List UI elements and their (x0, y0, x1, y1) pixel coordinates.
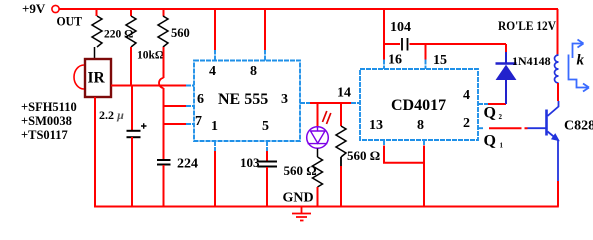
wire stub NE555 pin6 (teal) (186, 105, 194, 107)
wire stub rail to R 10k (130, 9, 132, 16)
wire NE555 pin8 stub teal (264, 50, 266, 61)
wire CD4017 pin2 stub teal (478, 127, 483, 129)
svg-text:104: 104 (390, 20, 411, 35)
wire pin4 to diode anode (488, 103, 506, 105)
IC U2 CD4017 box (360, 69, 478, 140)
wire R560 bottom lead black stub (340, 157, 342, 166)
svg-text:+SM0038: +SM0038 (21, 114, 72, 128)
wire NE555 pin3 stub teal (300, 102, 310, 104)
wire R560 to ground rail (340, 166, 342, 207)
wire right vertical from rail to relay coil (557, 9, 559, 55)
resistor R 560 LED (313, 157, 323, 187)
transistor Q1 emitter with arrow (548, 132, 559, 141)
wire NE555 pin5 stub teal (266, 141, 268, 151)
wire NE555 pin4 to rail (214, 9, 216, 50)
wire R560 junction to NE555 pin7 (164, 123, 187, 125)
wire CD4017 pin13 stub teal (383, 140, 385, 146)
svg-text:1: 1 (211, 119, 218, 134)
svg-text:8: 8 (417, 118, 424, 133)
resistor R 560 top (158, 16, 168, 47)
wire coil to collector (557, 83, 559, 101)
wire cap 2.2u to ground rail (131, 137, 133, 207)
wire IR bottom to ground rail (94, 97, 96, 207)
wire IR output to NE555 pin2 (red part) (111, 85, 186, 87)
svg-text:560: 560 (171, 26, 190, 40)
wire stub rail to R 220 (96, 9, 98, 16)
svg-text:560 Ω: 560 Ω (347, 148, 380, 163)
wire 10k down through junction to cap 2.2u (131, 47, 132, 131)
wire LED to resistor (black) (317, 149, 319, 158)
wire CD4017 pin14 stub teal (351, 102, 360, 104)
svg-text:+SFH5110: +SFH5110 (21, 100, 77, 114)
capacitor C 2.2u electrolytic plates (127, 130, 141, 132)
wire drop to R560 (pin13 pull) (340, 103, 342, 126)
relay K contact top terminal (573, 44, 583, 59)
svg-text:10kΩ: 10kΩ (137, 50, 164, 62)
wire CD4017 pin4 stub teal (478, 103, 488, 105)
resistor R 10k (126, 16, 136, 47)
wire pin13 down to junction (384, 146, 424, 163)
diode D1 1N4148 cathode bar (496, 62, 517, 64)
svg-text:7: 7 (195, 114, 202, 129)
wire CD4017 pin16 stub teal (383, 60, 385, 70)
wire stub NE555 pin2 (teal) (186, 85, 194, 87)
svg-text:2.2 µ: 2.2 µ (99, 108, 124, 122)
svg-text:13: 13 (369, 118, 383, 133)
svg-text:NE 555: NE 555 (218, 91, 268, 108)
svg-text:560 Ω: 560 Ω (284, 163, 317, 178)
svg-text:IR: IR (88, 70, 106, 87)
node +9V terminal circle (52, 5, 59, 12)
svg-text:8: 8 (250, 64, 257, 79)
wire NE555 pin8 to rail (264, 9, 266, 50)
svg-text:3: 3 (281, 92, 288, 107)
capacitor C 103 plates (258, 161, 278, 163)
transistor Q1 C828 base bar (545, 110, 548, 136)
LED light marks (323, 111, 331, 124)
svg-text:103: 103 (240, 155, 260, 170)
wire cap 103 to ground rail (266, 167, 268, 207)
wire R to ground rail (317, 187, 319, 207)
wire NE555 pin1 to ground rail (214, 151, 216, 207)
wire NE555 pin5 to cap 103 (266, 151, 268, 161)
wire NE555 pin1 stub teal (214, 141, 216, 151)
wire top rail (59, 8, 558, 10)
IR lens arc (74, 65, 84, 89)
LED triangle (311, 131, 326, 143)
svg-text:+TS0117: +TS0117 (21, 128, 68, 142)
svg-text:CD4017: CD4017 (391, 97, 446, 114)
wire pin3 to CD4017 pin14 red (310, 102, 351, 104)
svg-text:Q: Q (484, 133, 496, 150)
wire 104 to pin15 node and diode (410, 43, 507, 45)
capacitor C 224 plates (157, 159, 171, 161)
wire R560 junction to NE555 pin6 (164, 105, 187, 107)
label + polarity (141, 123, 147, 128)
wire NE555 pin4 stub teal (214, 50, 216, 61)
svg-text:Q: Q (484, 105, 496, 122)
wire emitter down blue (557, 140, 559, 181)
wire cap 224 to ground rail (163, 165, 165, 207)
svg-text:15: 15 (433, 53, 447, 68)
wire CD4017 pin8 stub teal (423, 140, 425, 146)
LED cathode bar (308, 143, 328, 145)
capacitor C 104 plates (402, 38, 408, 51)
transistor Q1 collector (548, 101, 559, 116)
wire ground rail (94, 206, 559, 208)
ground symbol (292, 207, 311, 221)
svg-text:C828: C828 (564, 119, 593, 134)
relay K contact armature (569, 55, 589, 88)
wire pin8 to ground rail (423, 146, 425, 207)
svg-text:RO'LE 12V: RO'LE 12V (498, 18, 557, 33)
svg-text:6: 6 (197, 92, 204, 107)
svg-text:1: 1 (500, 142, 504, 150)
IC U1 NE 555 box (194, 61, 300, 142)
wire drop to LED (317, 103, 319, 127)
svg-text:4: 4 (463, 88, 470, 103)
svg-text:k: k (577, 53, 585, 69)
wire emitter to ground rail (557, 181, 559, 207)
svg-text:1N4148: 1N4148 (512, 54, 551, 68)
diode D1 1N4148 triangle (497, 66, 516, 80)
svg-text:2: 2 (499, 113, 503, 121)
svg-text:5: 5 (262, 119, 269, 134)
svg-text:16: 16 (388, 53, 402, 68)
diode D1 1N4148 cathode lead (505, 52, 507, 63)
wire rail down to 104/pin16 (383, 9, 385, 60)
svg-text:224: 224 (177, 157, 198, 172)
diode D1 1N4148 anode lead (505, 80, 507, 104)
transistor Q1 base lead (528, 127, 546, 129)
wire drop to pin15 (425, 44, 427, 60)
wire hop bottom to pins 6,7 junction and down to cap 224 (163, 88, 165, 159)
diode 1N4148 top lead red from 104 line (505, 44, 507, 52)
wire hop over IR line (159, 78, 164, 88)
wire 560 down to hop (163, 47, 165, 78)
wire stub NE555 pin7 (teal) (186, 123, 194, 125)
svg-text:4: 4 (209, 64, 216, 79)
wire stub rail to R 560 top (163, 9, 165, 16)
IR receiver box (85, 59, 111, 97)
wire 104 branch left (384, 43, 400, 45)
LED internal lead (317, 127, 319, 131)
svg-text:GND: GND (283, 191, 314, 206)
wire CD4017 pin15 stub teal (425, 60, 427, 70)
relay K coil (555, 55, 559, 83)
wire pin2 to transistor base (red with gap) (489, 127, 528, 129)
svg-text:14: 14 (337, 86, 351, 101)
svg-text:+9V: +9V (22, 1, 46, 16)
wire R220 to IR box (black lead) (94, 47, 96, 59)
LED D1 circle (307, 127, 329, 149)
resistor R 560 clock (336, 126, 346, 157)
svg-text:2: 2 (463, 116, 470, 131)
resistor R 220 ohm (92, 16, 102, 47)
svg-text:OUT: OUT (57, 14, 83, 29)
